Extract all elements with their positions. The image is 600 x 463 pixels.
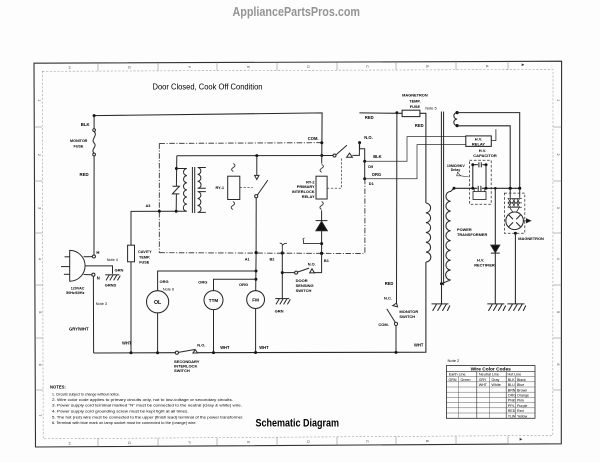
wire: bottom neutral bus left part (to secondary interlock) bbox=[94, 352, 176, 354]
svg-text:7: 7 bbox=[38, 414, 42, 416]
node: cap upper right bbox=[485, 163, 488, 166]
svg-text:N: N bbox=[97, 275, 100, 280]
node D9 bbox=[363, 160, 366, 163]
interlock relay contact (RY-2 operated) bbox=[333, 143, 359, 158]
svg-text:3: 3 bbox=[556, 207, 560, 209]
wire: neutral from N terminal down to bottom bus bbox=[92, 276, 94, 353]
svg-text:2: 2 bbox=[556, 153, 560, 155]
svg-text:TEMP.: TEMP. bbox=[409, 98, 420, 103]
label POWER TRANSFORMER bbox=[457, 227, 487, 237]
svg-text:FUSE: FUSE bbox=[410, 104, 421, 109]
wire: monitor switch column bbox=[396, 113, 398, 303]
magnetron temp fuse bbox=[402, 110, 420, 116]
label RED (monitor column) bbox=[385, 281, 394, 286]
svg-text:WHT: WHT bbox=[122, 340, 132, 345]
relay contact RY-1 (cook switch) bbox=[255, 156, 268, 253]
label SECONDARY INTERLOCK SWITCH bbox=[174, 359, 200, 373]
wire: top hot bus from monitor-fuse node to interlock COM column bbox=[94, 113, 322, 156]
label D9 bbox=[368, 164, 374, 169]
svg-text:C: C bbox=[365, 440, 369, 443]
svg-text:3. Power supply cord terminal: 3. Power supply cord terminal marked "N"… bbox=[52, 402, 242, 407]
svg-text:RY-1: RY-1 bbox=[216, 185, 225, 190]
svg-text:SWITCH: SWITCH bbox=[296, 288, 312, 293]
svg-text:TEMP.: TEMP. bbox=[139, 255, 150, 259]
power transformer HV secondary winding bbox=[442, 188, 455, 283]
node: HV secondary bottom bbox=[440, 282, 443, 285]
svg-text:►: ► bbox=[519, 437, 523, 442]
node: cap lower left bbox=[471, 187, 474, 190]
svg-text:D1: D1 bbox=[369, 181, 375, 186]
LVT core bbox=[192, 167, 194, 213]
ground: cord grounding screw GRND bbox=[105, 275, 120, 281]
label ORG (OL) bbox=[160, 279, 169, 284]
label B2 bbox=[270, 257, 276, 262]
wire ORG: D1 to H.V. relay bbox=[365, 145, 466, 179]
relay RY-1 coil squiggle top bbox=[232, 164, 235, 172]
wire: N.O. jog down to D9 bbox=[360, 143, 365, 179]
svg-text:D: D bbox=[306, 65, 310, 68]
svg-text:ORG: ORG bbox=[198, 279, 207, 284]
ground: B2 chassis ground GRN bbox=[275, 299, 290, 305]
svg-text:B2: B2 bbox=[270, 257, 276, 262]
label ORG (TTM) bbox=[198, 279, 207, 284]
node A1 bbox=[255, 251, 258, 254]
wire: OL to neutral bus bbox=[157, 313, 159, 353]
svg-text:WHT: WHT bbox=[220, 345, 230, 350]
node: door sensing switch branch bbox=[281, 271, 284, 274]
wire: from node down to monitor fuse bbox=[93, 116, 95, 129]
svg-text:Note 3: Note 3 bbox=[96, 302, 107, 306]
wire: B2 column bbox=[281, 253, 283, 299]
svg-text:RED: RED bbox=[385, 281, 394, 286]
svg-text:GRY/WHT: GRY/WHT bbox=[69, 326, 89, 331]
label RED (wire from monitor fuse to plug H) bbox=[80, 172, 89, 177]
svg-text:CAPACITOR: CAPACITOR bbox=[473, 153, 497, 158]
svg-text:GRN: GRN bbox=[449, 378, 457, 382]
svg-text:4: 4 bbox=[38, 258, 42, 260]
label GRND bbox=[105, 283, 117, 288]
node: TTM branch bbox=[254, 278, 257, 281]
svg-text:MONITOR: MONITOR bbox=[70, 139, 88, 143]
node B1 bbox=[320, 252, 323, 255]
svg-text:BLU: BLU bbox=[508, 383, 515, 387]
wire: monitor fuse down to H terminal bbox=[93, 156, 95, 255]
wire: plug ground lead GRN bbox=[85, 266, 112, 274]
svg-text:►: ► bbox=[521, 62, 525, 67]
svg-text:FUSE: FUSE bbox=[74, 144, 84, 148]
svg-text:F: F bbox=[187, 66, 191, 69]
svg-text:Brown: Brown bbox=[517, 388, 527, 392]
wire ORG: branch to oven lamp OL bbox=[158, 271, 256, 291]
svg-text:GRND: GRND bbox=[105, 283, 117, 288]
svg-text:1: 1 bbox=[37, 100, 41, 102]
node B2 bbox=[281, 251, 284, 254]
svg-text:5: 5 bbox=[556, 311, 560, 313]
label WHT (left of monitor switch corner) bbox=[414, 343, 424, 348]
node: HV rectifier tap bbox=[494, 187, 497, 190]
label WHT (right of FM) bbox=[259, 345, 269, 350]
node: cap upper left bbox=[471, 163, 474, 166]
label CAVITY TEMP. FUSE bbox=[138, 250, 152, 264]
node: OL on neutral bus bbox=[156, 351, 159, 354]
svg-text:RED: RED bbox=[508, 409, 516, 413]
svg-text:White: White bbox=[492, 383, 501, 387]
svg-text:G: G bbox=[127, 441, 131, 444]
label N.O. (door sensing switch) bbox=[308, 262, 316, 267]
label GRN (B2 ground) bbox=[275, 309, 284, 314]
label 120VAC 50Hz/60Hz bbox=[66, 287, 85, 295]
fan motor FM bbox=[247, 291, 265, 309]
label RY-2 PRIMARY INTERLOCK RELAY bbox=[292, 179, 316, 198]
magnetron filament leads bbox=[510, 188, 520, 198]
node: filament winding top bbox=[456, 111, 459, 114]
label Note 2 (table) bbox=[448, 358, 461, 363]
label RED (after fuse) bbox=[415, 123, 424, 128]
svg-text:MAGNETRON: MAGNETRON bbox=[402, 93, 428, 98]
svg-text:C: C bbox=[365, 65, 369, 68]
magnetron dashed enclosure bbox=[504, 193, 524, 233]
label GRY/WHT bbox=[69, 326, 89, 331]
wire: magnetron to ground bbox=[514, 233, 516, 304]
svg-text:ORG: ORG bbox=[508, 394, 516, 398]
node: magnetron cathode return bbox=[514, 232, 517, 235]
svg-text:SWITCH: SWITCH bbox=[399, 314, 415, 319]
ground: H.V. rectifier bbox=[487, 304, 505, 311]
node: filament lead upper joins HV line bbox=[518, 187, 521, 190]
node: cavity fuse column on neutral bus bbox=[130, 351, 133, 354]
svg-text:5: 5 bbox=[38, 311, 42, 313]
svg-text:Note 5: Note 5 bbox=[425, 106, 436, 110]
svg-text:Pink: Pink bbox=[517, 399, 524, 403]
node: filament winding bottom bbox=[456, 124, 459, 127]
label COM. bbox=[308, 136, 319, 141]
svg-text:N.O.: N.O. bbox=[364, 135, 372, 140]
svg-text:Note 4: Note 4 bbox=[107, 258, 118, 262]
label D1 bbox=[369, 181, 375, 186]
label Note 4 bbox=[107, 258, 118, 262]
svg-text:B: B bbox=[425, 65, 429, 68]
table header bbox=[471, 367, 512, 373]
svg-text:5. The hot (red) wire must be: 5. The hot (red) wire must be connected … bbox=[52, 414, 244, 419]
svg-text:Green: Green bbox=[461, 378, 471, 382]
table column headers bbox=[449, 373, 521, 377]
monitor switch contact bbox=[387, 303, 398, 352]
svg-text:1: 1 bbox=[556, 99, 560, 101]
secondary interlock switch bbox=[175, 350, 197, 355]
power transformer filament winding bbox=[454, 113, 457, 126]
label Note 5 bbox=[425, 106, 436, 110]
svg-text:BLK: BLK bbox=[373, 154, 381, 159]
node D1 bbox=[363, 177, 366, 180]
magnetron tube bbox=[506, 212, 524, 230]
svg-text:E: E bbox=[246, 66, 250, 69]
svg-text:4. Power supply cord grounding: 4. Power supply cord grounding screw mus… bbox=[52, 409, 189, 414]
label Note 6 bbox=[163, 288, 174, 292]
svg-text:TRANSFORMER: TRANSFORMER bbox=[457, 232, 487, 237]
power transformer core bbox=[441, 112, 443, 286]
svg-text:NOTES:: NOTES: bbox=[50, 385, 66, 390]
label B1 bbox=[324, 258, 330, 263]
label MONITOR SWITCH bbox=[399, 309, 418, 319]
label N.C. bbox=[384, 296, 392, 301]
oven lamp OL bbox=[147, 291, 169, 313]
label MAGNETRON bbox=[518, 236, 544, 241]
svg-text:B: B bbox=[425, 440, 429, 443]
svg-text:Gray: Gray bbox=[492, 378, 500, 382]
watermark text AppliancePartsPros.com bbox=[233, 5, 361, 19]
LVT primary winding bbox=[176, 169, 187, 212]
svg-text:ORG: ORG bbox=[160, 279, 169, 284]
node: monitor branch on hot wire bbox=[395, 111, 398, 114]
svg-text:H: H bbox=[96, 250, 99, 255]
node: HV secondary top bbox=[453, 187, 456, 190]
svg-text:Black: Black bbox=[517, 378, 526, 382]
svg-text:RELAY: RELAY bbox=[302, 194, 315, 199]
svg-text:6. Terminal with blue mark on: 6. Terminal with blue mark on lamp socke… bbox=[52, 420, 197, 425]
wire: rectifier to ground bbox=[494, 253, 496, 304]
svg-text:H: H bbox=[68, 442, 72, 445]
label A1 bbox=[245, 256, 251, 261]
svg-text:2: 2 bbox=[37, 154, 41, 156]
label WHT (right of TTM) bbox=[220, 345, 230, 350]
dash-dot wire: COM line to control bbox=[159, 142, 321, 145]
svg-text:N.O.: N.O. bbox=[197, 343, 205, 348]
label MAGNETRON TEMP. FUSE bbox=[402, 93, 428, 109]
svg-text:RED: RED bbox=[80, 172, 89, 177]
svg-text:3: 3 bbox=[37, 207, 41, 209]
svg-text:GRY: GRY bbox=[479, 378, 487, 382]
cavity temp fuse column wire bbox=[131, 211, 176, 353]
svg-text:COM.: COM. bbox=[308, 136, 319, 141]
node: top-left junction bbox=[93, 114, 96, 117]
terminal hook at B2 bbox=[280, 243, 287, 253]
terminal N of supply cord bbox=[84, 273, 95, 276]
wire: H.V. relay hook to filament line bbox=[491, 129, 496, 140]
wire: TTM to neutral bus bbox=[213, 310, 215, 353]
node: feed T-junction on contact line bbox=[320, 154, 323, 157]
H.V. capacitor assembly dashed enclosure bbox=[470, 160, 492, 204]
wire: HV secondary to chassis ground bbox=[441, 284, 443, 304]
svg-text:G: G bbox=[127, 66, 131, 69]
svg-text:Door Closed, Cook Off Conditio: Door Closed, Cook Off Condition bbox=[153, 82, 263, 91]
svg-text:RECTIFIER: RECTIFIER bbox=[474, 263, 495, 268]
table grid lines bbox=[446, 377, 535, 413]
table frame bbox=[446, 366, 535, 419]
svg-text:H: H bbox=[68, 66, 72, 69]
wire: RY-2 to diode bbox=[321, 211, 323, 221]
wire: A1 column down to FM bbox=[255, 253, 257, 291]
svg-text:SWITCH: SWITCH bbox=[174, 368, 190, 373]
svg-text:2. Wire color code applies to: 2. Wire color code applies to primary ci… bbox=[52, 397, 233, 402]
node: OL branch bbox=[255, 270, 258, 273]
table cell texts bbox=[449, 378, 530, 418]
svg-text:FM: FM bbox=[252, 297, 259, 302]
label RED (before fuse) bbox=[365, 115, 374, 120]
svg-text:Red: Red bbox=[517, 409, 524, 413]
low voltage transformer left column with Z break bbox=[175, 156, 178, 212]
svg-text:A1: A1 bbox=[245, 256, 251, 261]
label MONITOR FUSE bbox=[70, 139, 88, 148]
svg-text:1. Circuits subject to change: 1. Circuits subject to change without no… bbox=[52, 391, 120, 396]
relay RY-1 coil squiggle bottom bbox=[231, 202, 234, 210]
cavity temp fuse body bbox=[128, 245, 135, 262]
label H bbox=[96, 250, 99, 255]
ground: transformer secondary bbox=[432, 304, 450, 311]
capacitor lower element plates bbox=[478, 186, 481, 191]
svg-text:FUSE: FUSE bbox=[139, 261, 150, 265]
label N bbox=[97, 275, 100, 280]
svg-text:WHT: WHT bbox=[414, 343, 424, 348]
node A3 junction on dash-dot drop bbox=[158, 210, 161, 213]
capacitor upper element bbox=[473, 162, 486, 167]
wire: filament bottom lead to magnetron bbox=[457, 126, 510, 189]
label A3 bbox=[146, 203, 152, 208]
svg-text:RED: RED bbox=[415, 123, 424, 128]
dash-dot wire: left control drop to A-bus bbox=[158, 143, 160, 252]
svg-text:4: 4 bbox=[556, 258, 560, 260]
svg-text:RED: RED bbox=[365, 115, 374, 120]
label N.O. (secondary interlock) bbox=[197, 343, 205, 348]
drawing title: condition note bbox=[153, 82, 263, 91]
svg-text:B1: B1 bbox=[324, 258, 330, 263]
svg-text:PNK: PNK bbox=[508, 399, 516, 403]
svg-text:6: 6 bbox=[38, 364, 42, 366]
label COM. (monitor switch) bbox=[378, 322, 388, 327]
dashed mechanical link RY-2 to contact bbox=[327, 159, 341, 189]
svg-text:WHT: WHT bbox=[479, 383, 488, 387]
AC plug 120VAC bbox=[61, 250, 85, 281]
svg-text:RELAY: RELAY bbox=[472, 142, 486, 147]
node: B1 hook junction bbox=[320, 242, 323, 245]
svg-text:Blue: Blue bbox=[517, 383, 524, 387]
leader triangle to capacitor bbox=[457, 172, 469, 177]
svg-text:Hot Line: Hot Line bbox=[508, 373, 522, 377]
node: COM junction bbox=[320, 141, 323, 144]
label ORG (FM) bbox=[239, 282, 248, 287]
wire: HV line through capacitor bbox=[454, 187, 520, 189]
label H.V. RECTIFIER bbox=[474, 258, 495, 268]
H.V. rectifier branch bbox=[494, 188, 496, 245]
diode (RY-2 suppressor) bbox=[316, 221, 328, 231]
wire: FM to neutral bus bbox=[255, 309, 257, 353]
LVT secondary winding upper bbox=[198, 168, 206, 189]
svg-text:Delay: Delay bbox=[451, 168, 461, 172]
svg-text:YLW: YLW bbox=[508, 414, 516, 418]
svg-text:N.O.: N.O. bbox=[308, 262, 316, 267]
LVT secondary winding lower bbox=[198, 192, 206, 213]
label BLK (D9 wire) bbox=[373, 154, 381, 159]
label DOOR SENSING SWITCH bbox=[296, 278, 314, 293]
svg-text:GRN: GRN bbox=[115, 267, 124, 272]
node: RY-1 contact top bbox=[255, 154, 258, 157]
svg-text:N.C.: N.C. bbox=[384, 296, 392, 301]
Z element on LVT primary branch bbox=[172, 186, 179, 194]
svg-text:Neutral Line: Neutral Line bbox=[479, 373, 499, 377]
node: FM on neutral bus bbox=[254, 351, 257, 354]
wire ORG: branch to turntable motor TTM bbox=[214, 279, 256, 290]
node: N.O. of interlock contact bbox=[358, 141, 361, 144]
node: filament lead lower joins HV line bbox=[509, 187, 512, 190]
wire: fuse to power transformer primary bbox=[420, 113, 426, 203]
wire BLK: D9 to H.V. relay bbox=[365, 137, 466, 162]
magnetron antenna arrow bbox=[523, 219, 530, 223]
node: cap lower right bbox=[485, 187, 488, 190]
svg-text:F: F bbox=[187, 441, 191, 444]
relay RY-2 coil squiggle bottom bbox=[320, 202, 323, 210]
svg-text:OL: OL bbox=[154, 300, 162, 306]
relay RY-2 coil box bbox=[316, 176, 327, 199]
label Note 3 bbox=[96, 302, 107, 306]
svg-text:D: D bbox=[306, 440, 310, 443]
label WHT (left of cavity fuse column) bbox=[122, 340, 132, 345]
svg-text:Note 6: Note 6 bbox=[163, 288, 174, 292]
monitor fuse bbox=[93, 129, 96, 156]
node: LVT primary bottom / A3 bus bbox=[175, 210, 178, 213]
magnetron heater coil bbox=[508, 199, 522, 213]
wire: filament top lead to magnetron bbox=[457, 113, 520, 189]
sheet title: Schematic Diagram bbox=[256, 417, 340, 429]
node: TTM on neutral bus bbox=[212, 351, 215, 354]
svg-text:BRN: BRN bbox=[508, 388, 516, 392]
terminal hook at B1 bbox=[303, 238, 322, 244]
relay RY-1 coil box bbox=[228, 176, 240, 199]
svg-text:6: 6 bbox=[556, 363, 560, 365]
dash-dot wire: A1/B1/D1 bus bbox=[159, 252, 365, 255]
label H.V. CAPACITOR bbox=[473, 148, 497, 158]
label ORG (D1 wire) bbox=[372, 172, 381, 177]
svg-text:50Hz/60Hz: 50Hz/60Hz bbox=[66, 291, 84, 295]
svg-text:COM.: COM. bbox=[378, 322, 388, 327]
svg-text:D9: D9 bbox=[368, 164, 374, 169]
svg-text:WHT: WHT bbox=[259, 345, 269, 350]
svg-text:Orange: Orange bbox=[517, 394, 529, 398]
internal resistor box of capacitor bbox=[473, 188, 486, 199]
node: LVT primary top bbox=[175, 167, 178, 170]
svg-text:BLK: BLK bbox=[508, 378, 515, 382]
relay RY-2 column from feed node bbox=[321, 156, 323, 164]
svg-text:BLK: BLK bbox=[81, 122, 91, 127]
svg-text:A: A bbox=[485, 65, 489, 68]
svg-text:Note 2: Note 2 bbox=[448, 358, 461, 363]
svg-text:Schematic Diagram: Schematic Diagram bbox=[256, 417, 340, 429]
svg-text:Yellow: Yellow bbox=[517, 414, 528, 418]
wire: hot bus into fuse bbox=[359, 112, 402, 114]
power transformer primary winding bbox=[426, 203, 431, 262]
turntable motor TTM bbox=[204, 291, 223, 310]
svg-text:TTM: TTM bbox=[209, 298, 219, 303]
door sensing switch bbox=[282, 253, 321, 274]
relay RY-1 label bbox=[216, 185, 225, 190]
label 10M ohm bleeder note bbox=[447, 164, 465, 172]
H.V. relay coil box bbox=[466, 136, 492, 147]
label GRN (cord ground) bbox=[115, 267, 124, 272]
svg-text:Purple: Purple bbox=[517, 404, 527, 408]
wire: diode to B1 bbox=[321, 231, 323, 254]
wire: bottom neutral bus right part bbox=[198, 262, 426, 353]
svg-text:CAVITY: CAVITY bbox=[138, 250, 152, 254]
svg-text:ORG: ORG bbox=[372, 172, 381, 177]
wire: relay contact line (LVT to interlock contact) bbox=[177, 155, 333, 157]
relay RY-2 coil squiggle top bbox=[320, 164, 323, 172]
svg-text:A3: A3 bbox=[146, 203, 152, 208]
capacitor side links bbox=[473, 165, 486, 189]
svg-text:GRN: GRN bbox=[275, 309, 284, 314]
dashed mechanical link RY-1 to its contact bbox=[240, 186, 253, 188]
svg-text:ORG: ORG bbox=[239, 282, 248, 287]
dash-dot wire: D1 column down to bus bbox=[364, 179, 366, 254]
svg-text:MAGNETRON: MAGNETRON bbox=[518, 236, 544, 241]
label N.O. (interlock contact) bbox=[364, 135, 372, 140]
